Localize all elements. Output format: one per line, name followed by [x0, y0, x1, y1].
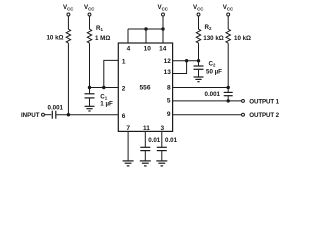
node output1: [227, 99, 230, 102]
capacitor 0.001 (input): [52, 111, 56, 119]
node input junction: [67, 113, 70, 116]
wire pin 3 down: [161, 131, 163, 147]
svg-text:0.001: 0.001: [48, 105, 64, 112]
svg-text:556: 556: [139, 85, 150, 92]
node pin1 branch: [102, 86, 105, 89]
resistor R1: [87, 29, 91, 43]
svg-text:0.001: 0.001: [205, 91, 221, 98]
svg-text:2: 2: [122, 86, 126, 93]
svg-text:12: 12: [164, 58, 172, 65]
wire: [161, 151, 163, 161]
svg-text:1 µF: 1 µF: [100, 101, 113, 108]
op-amp U1 556 IC box: [118, 43, 172, 131]
node R1/C1: [88, 86, 91, 89]
svg-text:1 MΩ: 1 MΩ: [95, 35, 110, 42]
wire pin 9 / output 2: [173, 114, 242, 116]
svg-text:OUTPUT 1: OUTPUT 1: [249, 98, 279, 105]
svg-text:8: 8: [167, 85, 171, 92]
wire pin 10 stub: [145, 29, 147, 43]
svg-text:130 kΩ: 130 kΩ: [203, 35, 223, 42]
resistor R2: [196, 29, 200, 43]
svg-text:14: 14: [159, 46, 167, 53]
capacitor 0.01 (pin 11): [140, 147, 150, 150]
svg-text:5: 5: [167, 97, 171, 104]
svg-text:9: 9: [167, 111, 171, 118]
node pin8/10k: [227, 86, 230, 89]
svg-text:11: 11: [143, 125, 150, 132]
power terminal VCC (R2): [197, 13, 200, 29]
svg-text:0.01: 0.01: [148, 137, 161, 144]
wire: [67, 43, 69, 115]
resistor 10k (right): [226, 29, 230, 43]
ground (C1): [85, 106, 95, 111]
svg-text:INPUT: INPUT: [21, 112, 40, 119]
node bus pin14: [161, 27, 164, 30]
wire input to pin 6: [56, 114, 118, 116]
wire pin 4 stub: [127, 29, 129, 43]
svg-text:50 µF: 50 µF: [206, 69, 222, 76]
node pin12/13 tie: [185, 59, 188, 62]
power terminal VCC (right 10k): [227, 13, 230, 29]
wire pin 11 down: [144, 131, 146, 147]
resistor 10k (left): [66, 29, 70, 43]
svg-text:13: 13: [164, 69, 172, 76]
node bus pin10: [144, 27, 147, 30]
capacitor 0.001 (output): [224, 88, 233, 101]
wire pin 2: [90, 87, 119, 89]
wire R2 down: [198, 43, 200, 61]
wire pin 1: [104, 60, 119, 87]
wire pin 5 / output 1: [173, 100, 242, 102]
terminal OUTPUT 1: [242, 99, 245, 102]
input terminal: [42, 113, 52, 116]
wire pin 14 riser to VCC: [162, 16, 164, 43]
node R2/C2: [197, 59, 200, 62]
capacitor C2: [194, 61, 204, 77]
wire pin 7 down: [127, 131, 129, 161]
svg-text:7: 7: [126, 125, 130, 132]
ground (pin 7): [123, 161, 134, 166]
power terminal VCC (R1): [88, 13, 91, 29]
wire pin 13: [173, 61, 187, 74]
wire 10k down to pin8 line: [227, 43, 229, 87]
terminal OUTPUT 2: [242, 113, 245, 116]
wire pin 12: [173, 60, 199, 62]
ground (C2): [194, 77, 204, 82]
capacitor 0.01 (pin 3): [157, 147, 167, 150]
svg-text:1: 1: [122, 58, 126, 65]
ground (pin 11): [140, 161, 151, 166]
wire: [144, 151, 146, 161]
capacitor C1: [85, 88, 95, 107]
svg-text:6: 6: [122, 113, 126, 120]
svg-text:10 kΩ: 10 kΩ: [234, 35, 251, 42]
svg-text:4: 4: [127, 46, 131, 53]
power terminal VCC (IC): [162, 13, 165, 16]
ground (pin 3): [156, 161, 167, 166]
wire pin 8: [173, 87, 229, 89]
svg-text:10 kΩ: 10 kΩ: [46, 35, 63, 42]
svg-text:0.01: 0.01: [165, 137, 178, 144]
svg-text:10: 10: [144, 46, 152, 53]
svg-text:OUTPUT 2: OUTPUT 2: [249, 112, 279, 119]
wire: [89, 43, 91, 87]
power terminal VCC (left, 10k): [67, 13, 70, 29]
wire top bus: [128, 28, 163, 30]
svg-text:3: 3: [160, 125, 164, 132]
